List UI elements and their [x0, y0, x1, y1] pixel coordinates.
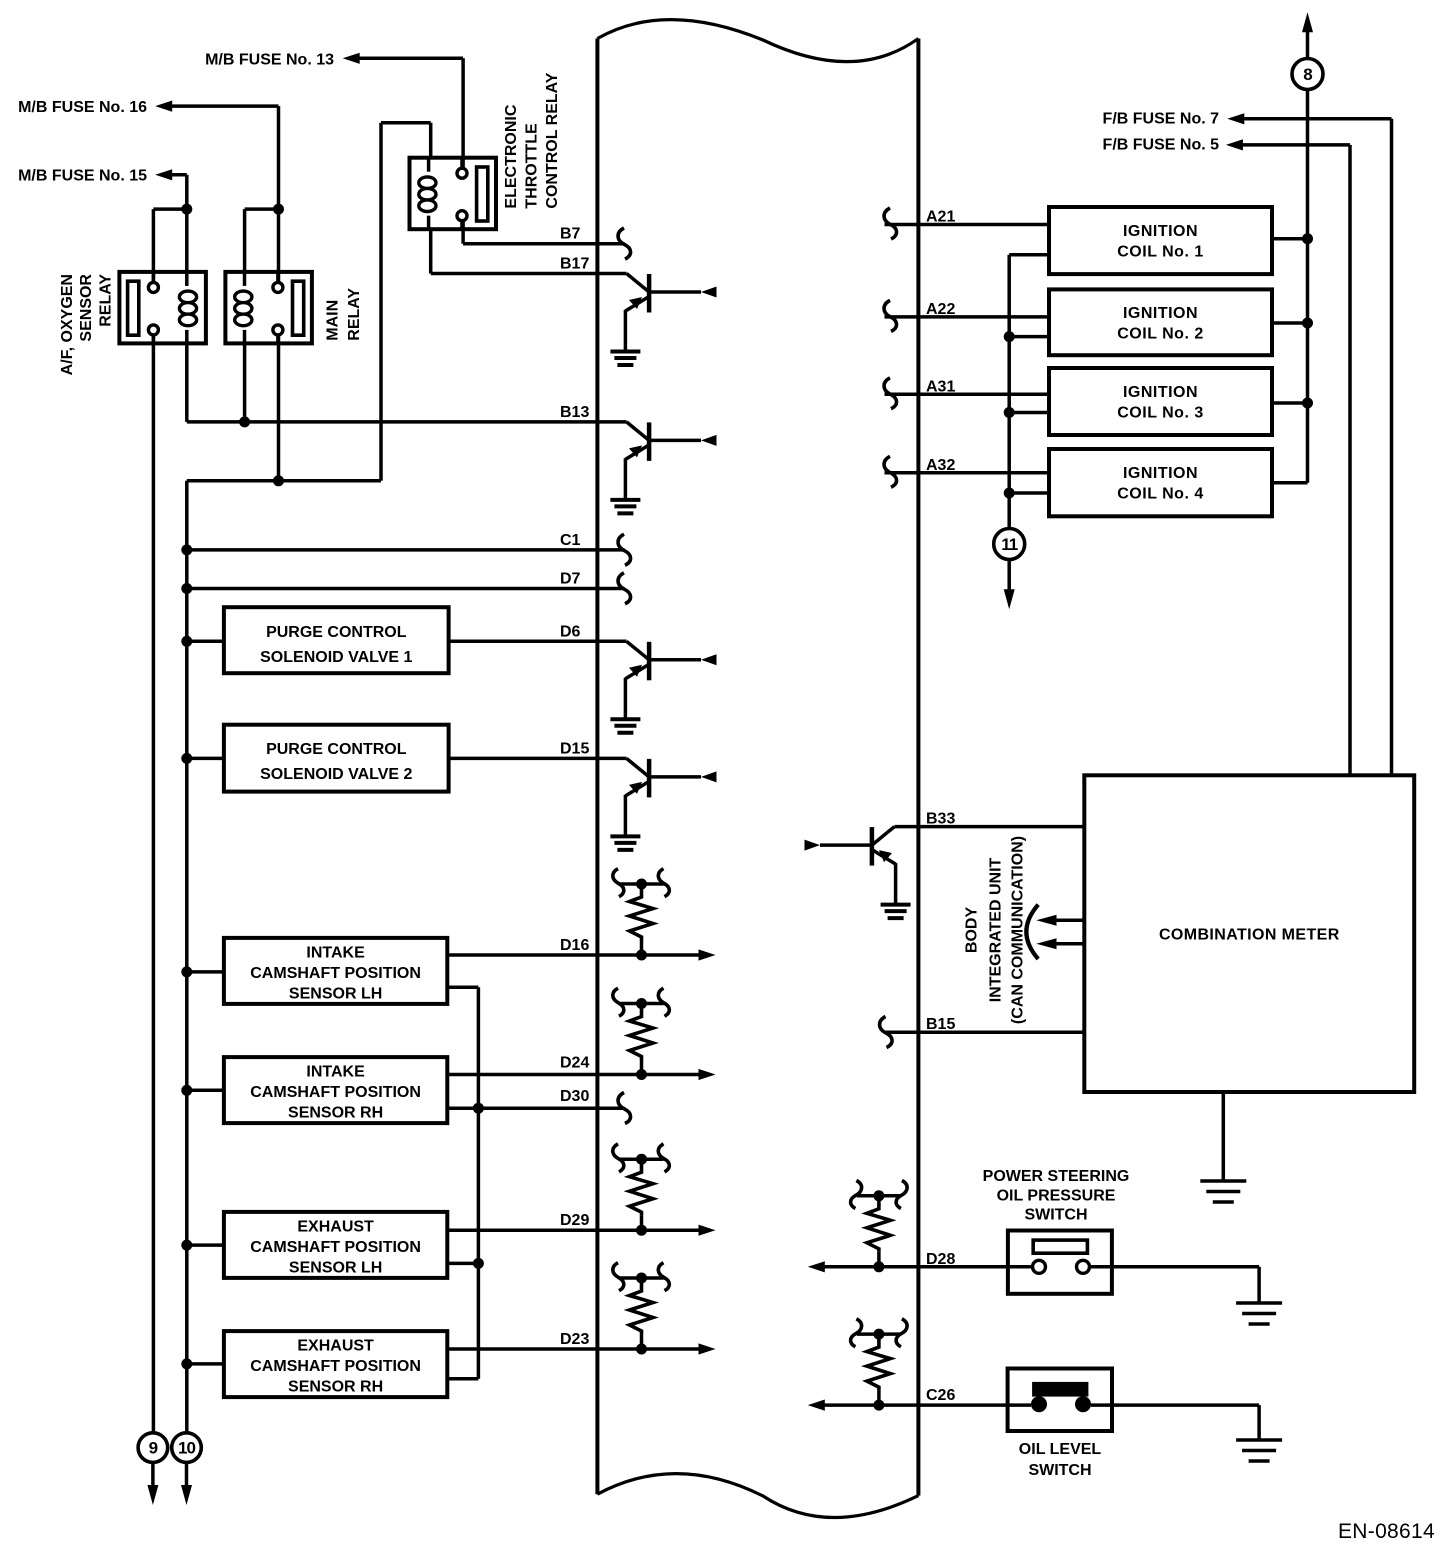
svg-text:IGNITION: IGNITION [1123, 465, 1198, 482]
pin D16 wire [447, 953, 700, 957]
resistor pull-up D23 [636, 1344, 647, 1355]
CAN communication arrows into body integrated unit [1050, 919, 1084, 923]
svg-text:C26: C26 [926, 1387, 955, 1404]
ignition coil No. 1 [1049, 207, 1272, 274]
pin D29 wire [447, 1228, 700, 1232]
svg-text:B17: B17 [560, 256, 589, 273]
pin D28 wire [808, 1261, 825, 1272]
node 8 [1292, 59, 1323, 90]
pin B33 wire [895, 825, 1085, 829]
ground (power steering switch) [1236, 1301, 1282, 1305]
svg-text:D16: D16 [560, 937, 589, 954]
svg-text:SWITCH: SWITCH [1024, 1207, 1087, 1224]
svg-text:COIL No. 1: COIL No. 1 [1117, 244, 1204, 261]
resistor pull-up C26 [873, 1400, 884, 1411]
svg-text:SENSOR RH: SENSOR RH [288, 1105, 383, 1122]
transistor Q1 (B17 driver) [627, 274, 650, 293]
wire coil 2 supply [1272, 321, 1308, 325]
transistor Q3 (D6 driver) [627, 641, 650, 660]
pin A31 wire [885, 393, 1050, 397]
ECM connector boundary (torn-edge block) [597, 20, 918, 1518]
ignition coil No. 2 [1049, 289, 1272, 355]
arrow D16 (to next sheet) [699, 949, 716, 960]
component EXHAUST CAMSHAFT POSITION SENSOR LH [224, 1212, 447, 1278]
svg-text:COIL No. 3: COIL No. 3 [1117, 405, 1204, 422]
svg-text:COIL No. 4: COIL No. 4 [1117, 486, 1204, 503]
svg-text:M/B FUSE No. 15: M/B FUSE No. 15 [18, 168, 147, 185]
svg-text:IGNITION: IGNITION [1123, 305, 1198, 322]
node 11 [994, 529, 1025, 560]
wire ignition control common rail [1007, 255, 1011, 529]
node 9 [138, 1433, 168, 1463]
svg-text:10: 10 [178, 1439, 195, 1458]
svg-text:THROTTLE: THROTTLE [523, 123, 540, 209]
svg-text:D15: D15 [560, 740, 589, 757]
svg-text:IGNITION: IGNITION [1123, 384, 1198, 401]
pin C26 wire [808, 1400, 825, 1411]
svg-text:COIL No. 2: COIL No. 2 [1117, 325, 1204, 342]
svg-text:CONTROL RELAY: CONTROL RELAY [544, 72, 561, 208]
pin B13 wire [185, 344, 189, 422]
wire fuse16 to main relay pins [245, 207, 279, 211]
relay: A/F, OXYGEN SENSOR RELAY [119, 272, 205, 344]
component INTAKE CAMSHAFT POSITION SENSOR RH [224, 1057, 447, 1123]
ground (combination meter) [1200, 1179, 1246, 1183]
node 10 [172, 1433, 202, 1463]
wire purge valve 2 supply [181, 753, 192, 764]
svg-text:M/B FUSE No. 13: M/B FUSE No. 13 [205, 52, 334, 69]
arrow D24 [699, 1069, 716, 1080]
svg-text:CAMSHAFT POSITION: CAMSHAFT POSITION [250, 1358, 421, 1375]
svg-text:OIL LEVEL: OIL LEVEL [1019, 1441, 1102, 1458]
svg-text:B15: B15 [926, 1016, 955, 1033]
svg-text:SENSOR RH: SENSOR RH [288, 1379, 383, 1396]
pin C1 wire [181, 544, 192, 555]
svg-text:IGNITION: IGNITION [1123, 223, 1198, 240]
wire throttle relay coil feed [429, 123, 433, 158]
component PURGE CONTROL SOLENOID VALVE 2 [224, 725, 449, 792]
svg-text:D7: D7 [560, 571, 581, 588]
pin D7 wire [181, 583, 192, 594]
svg-text:CAMSHAFT POSITION: CAMSHAFT POSITION [250, 1239, 421, 1256]
svg-text:SOLENOID VALVE 1: SOLENOID VALVE 1 [260, 649, 412, 666]
ignition coil No. 3 [1049, 368, 1272, 435]
pin B15 wire [886, 1030, 1084, 1034]
relay: MAIN RELAY [225, 272, 312, 344]
wire C26 switch to ground [1091, 1403, 1259, 1407]
wire coil 2 control return [1009, 335, 1049, 339]
resistor pull-up D29 [636, 1225, 647, 1236]
svg-text:POWER STEERING: POWER STEERING [983, 1168, 1130, 1185]
wire coil 4 supply [1272, 481, 1308, 485]
resistor pull-up D24 [636, 1069, 647, 1080]
svg-text:OIL PRESSURE: OIL PRESSURE [997, 1188, 1116, 1205]
CAN bus arc [1026, 905, 1038, 959]
svg-text:A/F, OXYGEN: A/F, OXYGEN [59, 274, 76, 375]
component EXHAUST CAMSHAFT POSITION SENSOR RH [224, 1331, 447, 1397]
svg-text:INTAKE: INTAKE [306, 944, 365, 961]
svg-text:B7: B7 [560, 226, 581, 243]
svg-text:D30: D30 [560, 1088, 589, 1105]
wire combination meter ground lead [1222, 1092, 1226, 1181]
svg-text:COMBINATION METER: COMBINATION METER [1159, 927, 1340, 944]
resistor pull-up D16 [636, 950, 647, 961]
pin D23 wire [447, 1347, 700, 1351]
svg-text:EXHAUST: EXHAUST [297, 1218, 374, 1235]
transistor Q5 (B33 driver) [872, 827, 895, 846]
svg-text:A21: A21 [926, 209, 955, 226]
svg-text:B33: B33 [926, 811, 955, 828]
svg-text:(CAN COMMUNICATION): (CAN COMMUNICATION) [1010, 836, 1027, 1024]
svg-text:INTEGRATED UNIT: INTEGRATED UNIT [988, 857, 1005, 1002]
wire exhaust LH common join [447, 1262, 478, 1266]
wire purge valve 1 supply [181, 636, 192, 647]
svg-text:D23: D23 [560, 1331, 589, 1348]
wire coil 3 control return [1009, 411, 1049, 415]
svg-text:B13: B13 [560, 404, 589, 421]
svg-text:BODY: BODY [964, 907, 981, 954]
svg-text:EN-08614: EN-08614 [1338, 1520, 1435, 1543]
switch: power steering oil pressure switch [1008, 1231, 1112, 1294]
svg-text:CAMSHAFT POSITION: CAMSHAFT POSITION [250, 1084, 421, 1101]
wire coil 1 supply [1272, 237, 1308, 241]
pin D24 wire [447, 1073, 700, 1077]
svg-text:RELAY: RELAY [346, 288, 363, 341]
svg-text:F/B FUSE No. 7: F/B FUSE No. 7 [1103, 111, 1220, 128]
pin A21 wire [885, 223, 1050, 227]
ignition coil No. 4 [1049, 449, 1272, 516]
wire coil 1 control return [1009, 253, 1049, 257]
svg-text:C1: C1 [560, 532, 581, 549]
svg-text:SENSOR: SENSOR [78, 274, 95, 342]
svg-text:A22: A22 [926, 301, 955, 318]
pin A22 wire [885, 315, 1050, 319]
wire rail (sensor supply) down to node 10 [185, 481, 189, 1433]
svg-text:M/B FUSE No. 16: M/B FUSE No. 16 [18, 99, 147, 116]
arrow D23 [699, 1343, 716, 1354]
svg-text:ELECTRONIC: ELECTRONIC [503, 104, 520, 208]
svg-text:D6: D6 [560, 623, 581, 640]
component PURGE CONTROL SOLENOID VALVE 1 [224, 607, 449, 673]
svg-text:D28: D28 [926, 1251, 955, 1268]
component COMBINATION METER [1084, 775, 1414, 1092]
relay: ELECTRONIC THROTTLE CONTROL RELAY [410, 158, 497, 230]
svg-text:A31: A31 [926, 378, 955, 395]
svg-text:SENSOR LH: SENSOR LH [289, 1259, 382, 1276]
pin B17 wire [429, 229, 433, 273]
wire exhaust RH common join [447, 1377, 478, 1381]
transistor Q2 (B13 driver) [627, 422, 650, 441]
wire main relay contact to supply rail [277, 335, 281, 480]
svg-text:A32: A32 [926, 457, 955, 474]
svg-text:11: 11 [1001, 535, 1018, 554]
pin D15 wire [449, 757, 627, 761]
resistor pull-up D28 [873, 1261, 884, 1272]
wire rail from A/F relay contact down to node 9 [152, 335, 156, 1433]
wire fuse15 to A/F relay pins [153, 207, 186, 211]
wire sensor LH signal common [447, 986, 478, 990]
wire ignition supply rail [1306, 30, 1310, 58]
svg-text:SENSOR LH: SENSOR LH [289, 985, 382, 1002]
svg-text:D24: D24 [560, 1055, 589, 1072]
svg-text:SWITCH: SWITCH [1028, 1462, 1091, 1479]
svg-text:F/B FUSE No. 5: F/B FUSE No. 5 [1103, 137, 1220, 154]
svg-text:8: 8 [1303, 65, 1312, 84]
svg-text:PURGE CONTROL: PURGE CONTROL [266, 741, 407, 758]
svg-text:CAMSHAFT POSITION: CAMSHAFT POSITION [250, 965, 421, 982]
arrow D29 [699, 1225, 716, 1236]
transistor Q4 (D15 driver) [627, 758, 650, 777]
svg-text:9: 9 [149, 1439, 158, 1458]
pin A32 wire [885, 471, 1050, 475]
svg-text:D29: D29 [560, 1212, 589, 1229]
pin B7 wire [461, 220, 465, 244]
switch: oil level switch [1008, 1369, 1112, 1432]
wire coil 3 supply [1272, 401, 1308, 405]
ground (oil level switch) [1236, 1438, 1282, 1442]
wire coil 4 control return [1009, 491, 1049, 495]
svg-text:RELAY: RELAY [98, 274, 115, 327]
pin D30 wire [447, 1106, 624, 1110]
svg-text:INTAKE: INTAKE [306, 1064, 365, 1081]
svg-text:MAIN: MAIN [325, 300, 342, 341]
pin D6 wire [449, 640, 627, 644]
svg-text:PURGE CONTROL: PURGE CONTROL [266, 624, 407, 641]
svg-text:EXHAUST: EXHAUST [297, 1338, 374, 1355]
wire D28 switch to ground [1090, 1265, 1260, 1269]
svg-text:SOLENOID VALVE 2: SOLENOID VALVE 2 [260, 766, 412, 783]
component INTAKE CAMSHAFT POSITION SENSOR LH [224, 938, 447, 1004]
